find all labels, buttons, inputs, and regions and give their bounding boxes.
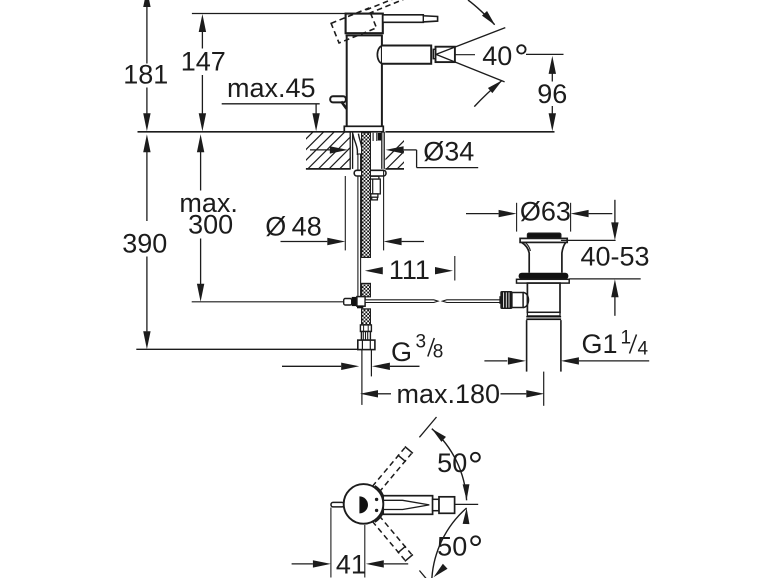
G3/8 tail pipe right wall: [370, 350, 372, 377]
dashed spout at 50deg upper: [379, 454, 411, 493]
50deg lower arc top arrowhead: [463, 508, 470, 524]
head collar line: [346, 34, 383, 36]
40-53 bottom arrow: [611, 279, 618, 297]
40deg degree circle: [517, 45, 525, 53]
lever handle: [383, 15, 438, 22]
G1 1/4 right arrowhead: [561, 357, 579, 364]
40deg leader right segment: [526, 53, 564, 55]
aerator neck: [433, 49, 435, 58]
rod clamp white square: [357, 297, 365, 307]
deck hatching left: [276, 132, 387, 169]
dim 390 bottom reference line: [136, 348, 357, 350]
svg-text:4: 4: [638, 339, 649, 360]
50deg arc lower: [432, 508, 467, 578]
dim 181 top arrow (points up, tip off-canvas): [143, 0, 150, 7]
deck top surface line left: [138, 131, 351, 133]
dashed head (raised handle position): [331, 8, 376, 43]
svg-text:147: 147: [181, 47, 226, 77]
dim 390 bottom arrow: [143, 331, 150, 349]
40deg upper arc arrowhead: [482, 11, 495, 25]
knurled section of G3/8 connector: [361, 332, 370, 341]
41 extension line center: [364, 525, 366, 578]
vertical pop-up rod: [358, 154, 361, 297]
svg-text:41: 41: [336, 550, 366, 578]
pop-up rod lower tip: [357, 305, 363, 308]
svg-text:40-53: 40-53: [580, 242, 649, 272]
shank inner detail lines top right: [372, 133, 374, 141]
dim 147 top reference line: [192, 13, 346, 15]
O63 right arrowhead: [571, 210, 589, 217]
top view flange arc behind: [375, 486, 385, 522]
ball rod connector arc: [523, 293, 528, 308]
drain plug cap (dark): [527, 233, 561, 238]
faucet base flange: [344, 126, 383, 132]
O34 left arrowhead: [330, 146, 348, 153]
drain body: [527, 283, 560, 312]
lever handle neck line: [422, 15, 424, 22]
50deg lower degree circle: [471, 536, 480, 545]
svg-text:1: 1: [621, 328, 632, 349]
111 extension line (aerator projection): [454, 256, 456, 281]
dim 181 bottom arrow at deck: [143, 113, 150, 131]
dim 111 left arrowhead: [365, 267, 383, 274]
dim max.300 bottom arrow: [197, 284, 204, 302]
linkage rod segment 1 (with break taper): [365, 300, 438, 303]
faucet cartridge head: [346, 14, 383, 34]
40 deg swivel arc upper: [468, 0, 495, 25]
50deg lower arc bottom arrowhead: [434, 564, 448, 577]
top view pop-up rod tick: [331, 502, 344, 507]
svg-text:181: 181: [123, 60, 168, 90]
drain lower white band: [527, 312, 560, 316]
50deg upper arc top arrowhead: [432, 429, 446, 442]
top view centerline: [455, 503, 479, 505]
drain neck inner line: [525, 242, 530, 251]
deck bottom line right: [385, 168, 404, 170]
41 extension line left: [330, 508, 332, 578]
O48 extension line right: [383, 170, 385, 250]
knurled adjustment knob: [499, 296, 501, 304]
braided hose middle section (after break): [362, 283, 371, 296]
G3/8 hex nut: [358, 340, 375, 350]
dashed spout at 50deg lower: [372, 521, 405, 560]
50deg arc upper: [432, 429, 467, 501]
dim 96 top arrow: [549, 56, 556, 74]
O63 extension lines: [516, 203, 518, 232]
spray cone lower line: [436, 54, 505, 82]
drain tailpipe walls: [526, 320, 528, 372]
dashed raised lever line 1: [366, 0, 398, 10]
dim 41 left arrowhead: [313, 560, 331, 567]
svg-text:111: 111: [389, 255, 430, 285]
dim 41 right arrowhead: [366, 560, 384, 567]
horseshoe mounting washer: [354, 170, 386, 176]
40-53 top leader: [561, 239, 616, 241]
40-53 top arrow: [611, 222, 618, 240]
40deg leader left segment: [455, 54, 475, 56]
top view spout outer: [383, 496, 432, 515]
retaining ring bars: [526, 316, 561, 318]
max.45 arrow at deck: [312, 113, 319, 131]
top view cartridge D mark: [359, 496, 368, 513]
faucet body left wall: [346, 35, 348, 126]
drain centerline extension: [543, 372, 545, 406]
mounting nut: [370, 176, 379, 179]
G3/8 right arrowhead: [372, 363, 390, 370]
drain O-ring band (black): [519, 273, 569, 280]
pop-up knob on body: [330, 96, 346, 102]
svg-text:390: 390: [122, 229, 167, 259]
svg-text:G: G: [391, 337, 412, 367]
top view aerator neck: [433, 499, 439, 510]
shank outer wall left (double): [349, 132, 351, 169]
svg-text:Ø63: Ø63: [520, 197, 571, 227]
O34 leader: line right, step down, underline: [404, 149, 417, 151]
svg-text:3: 3: [416, 332, 427, 353]
top view body circle: [344, 484, 384, 524]
svg-text:96: 96: [537, 79, 567, 109]
max.180 left arrowhead: [360, 390, 378, 397]
deck hatching right: [376, 132, 434, 169]
G3/8 tail pipe left wall / extension line: [361, 350, 363, 405]
svg-text:8: 8: [433, 342, 444, 363]
max.45 arrow stem: [315, 104, 317, 115]
O63 left arrowhead: [499, 210, 517, 217]
dim max.300 bottom reference line to pop-up rod: [192, 301, 344, 303]
rod clamp dark block: [352, 297, 357, 306]
spout tube: [382, 46, 431, 64]
40deg lower arc arrowhead: [488, 80, 502, 93]
dim 390 top arrow below deck: [143, 134, 150, 152]
svg-text:max.180: max.180: [397, 379, 501, 409]
top view screw dots: [375, 498, 378, 501]
dim 147 bottom arrow: [199, 113, 206, 131]
G1 1/4 left arrowhead: [508, 357, 526, 364]
drain neck left outline: [522, 242, 530, 272]
40 deg swivel arc lower: [474, 80, 502, 106]
svg-text:G1: G1: [582, 329, 618, 359]
50deg upper degree circle: [471, 453, 480, 462]
svg-text:max.45: max.45: [227, 73, 316, 103]
svg-text:Ø34: Ø34: [423, 137, 474, 167]
deck top surface line right: [385, 131, 554, 133]
40-53 bottom leader: [569, 278, 641, 280]
svg-text:50: 50: [437, 448, 467, 478]
drain cap plate: [520, 238, 567, 242]
max.45 leader underline: [222, 103, 320, 105]
dim 111 right arrowhead: [435, 267, 453, 274]
spout tube left end cap arc: [377, 46, 382, 64]
dim 96 bottom arrow: [549, 113, 556, 131]
drain flange lip: [517, 279, 570, 283]
drain neck right outline: [562, 242, 566, 272]
faucet body right wall: [381, 35, 383, 126]
svg-text:50: 50: [437, 531, 467, 561]
ball rod connector: [512, 293, 523, 308]
top view spout inner lines: [383, 500, 429, 509]
rod clamp small cylinder: [344, 299, 352, 306]
shank outer wall right (double): [381, 132, 383, 169]
spray cone upper line: [436, 28, 505, 55]
dim O34 left arrow: [310, 149, 330, 151]
braided supply hose upper section: [362, 133, 371, 258]
dim max.300 top arrow below deck: [197, 134, 204, 152]
O34 right arrowhead: [386, 146, 404, 153]
max.180 right arrowhead: [526, 390, 544, 397]
dim 147 top arrow: [199, 14, 206, 32]
deck bottom line left: [306, 168, 351, 170]
svg-text:40: 40: [482, 41, 512, 71]
O48 extension line left: [344, 176, 346, 250]
linkage rod segment 2: [442, 300, 501, 303]
O48 right arrowhead: [384, 238, 402, 245]
pop-up rod curve inside shank: [353, 134, 358, 155]
50deg upper arc bottom arrowhead: [463, 484, 470, 500]
O48 left arrowhead: [327, 238, 345, 245]
svg-text:300: 300: [188, 210, 233, 240]
top view aerator: [439, 497, 455, 514]
aerator (mousseur): [436, 47, 455, 62]
hose ferrule: [360, 325, 371, 332]
dashed raised lever line 2: [369, 0, 404, 14]
svg-text:Ø 48: Ø 48: [265, 212, 321, 242]
G3/8 left arrowhead: [341, 363, 359, 370]
braided hose lower section: [362, 309, 371, 325]
